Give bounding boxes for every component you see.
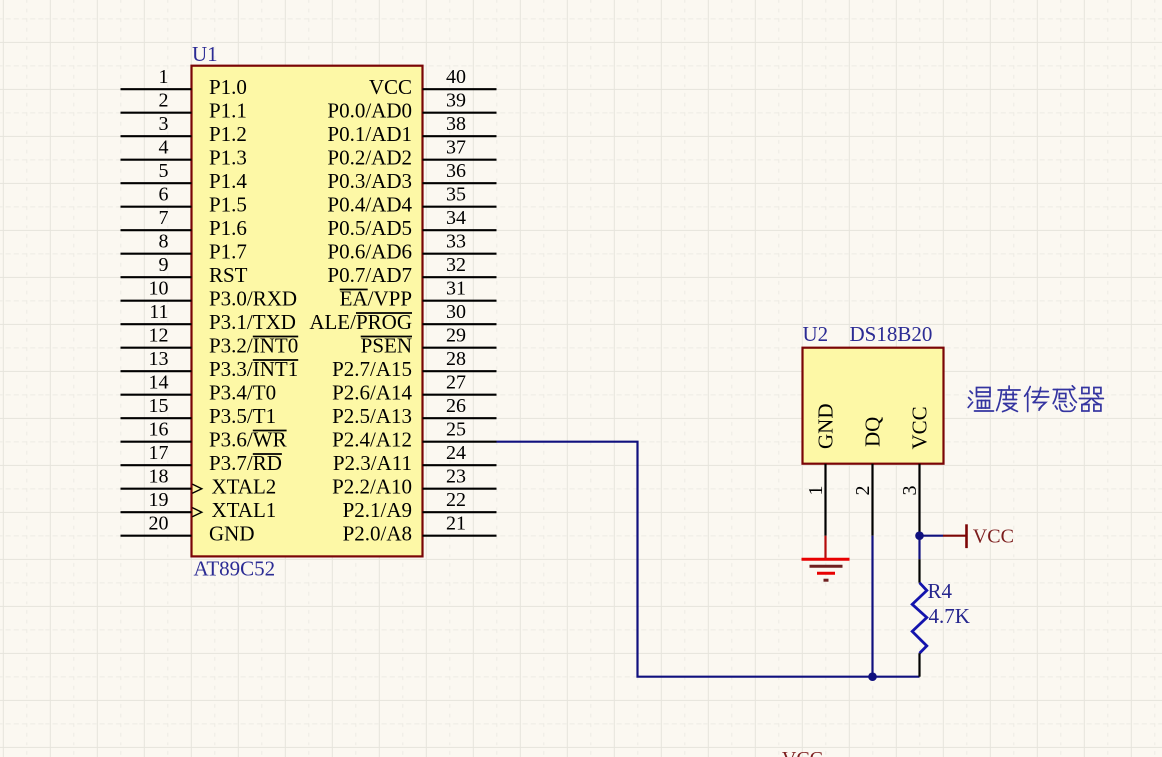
U2 pin 3 VCC	[899, 406, 931, 535]
svg-text:12: 12	[149, 325, 169, 347]
U1 pin 31 EA/VPP	[340, 278, 497, 311]
svg-text:4.7K: 4.7K	[929, 604, 970, 628]
svg-text:P2.7/A15: P2.7/A15	[332, 357, 412, 381]
svg-text:P0.2/AD2: P0.2/AD2	[327, 146, 412, 170]
svg-text:14: 14	[149, 372, 169, 394]
svg-text:XTAL2: XTAL2	[212, 475, 277, 499]
U1 pin 33 P0.6/AD6	[327, 231, 496, 264]
svg-text:28: 28	[446, 348, 466, 370]
svg-text:P1.1: P1.1	[209, 99, 247, 123]
U1 pin 13 P3.3/INT1	[121, 348, 299, 381]
svg-text:P0.6/AD6: P0.6/AD6	[327, 240, 412, 264]
U1 pin 17 P3.7/RD	[121, 442, 282, 475]
svg-text:16: 16	[149, 419, 169, 441]
svg-text:19: 19	[149, 489, 169, 511]
U1 pin 11 P3.1/TXD	[121, 301, 296, 334]
svg-text:4: 4	[159, 137, 169, 159]
svg-text:40: 40	[446, 66, 466, 88]
svg-text:7: 7	[159, 207, 169, 229]
R4 value label 4.7K	[929, 604, 970, 628]
svg-text:P0.7/AD7: P0.7/AD7	[327, 263, 412, 287]
svg-text:P3.1/TXD: P3.1/TXD	[209, 310, 296, 334]
U1 pin 3 P1.2	[121, 113, 247, 146]
svg-text:P2.6/A14: P2.6/A14	[332, 381, 412, 405]
svg-text:23: 23	[446, 466, 466, 488]
svg-text:33: 33	[446, 231, 466, 253]
U1 designator label	[192, 42, 218, 66]
U1 pin 40 VCC	[369, 66, 497, 99]
U2 pin 1 GND	[805, 404, 837, 536]
svg-text:P3.4/T0: P3.4/T0	[209, 381, 276, 405]
svg-text:25: 25	[446, 419, 466, 441]
svg-text:17: 17	[149, 442, 169, 464]
svg-text:30: 30	[446, 301, 466, 323]
svg-text:P1.3: P1.3	[209, 146, 247, 170]
U2 pin 2 DQ	[852, 417, 884, 536]
U1 pin 28 P2.7/A15	[332, 348, 496, 381]
U1 pin 2 P1.1	[121, 90, 247, 123]
U1 pin 29 PSEN	[361, 325, 497, 358]
U1 pin 39 P0.0/AD0	[327, 90, 496, 123]
U1 pin 9 RST	[121, 254, 248, 287]
svg-text:15: 15	[149, 395, 169, 417]
svg-text:R4: R4	[928, 579, 953, 603]
svg-text:P2.4/A12: P2.4/A12	[332, 428, 412, 452]
svg-text:1: 1	[159, 66, 169, 88]
svg-text:VCC: VCC	[369, 75, 412, 99]
U1 pin 15 P3.5/T1	[121, 395, 277, 428]
wire VCC stub	[920, 535, 944, 537]
U1 pin 24 P2.3/A11	[333, 442, 497, 475]
U1 pin 18 XTAL2	[121, 466, 277, 499]
svg-text:2: 2	[852, 486, 874, 496]
U1 pin 25 P2.4/A12	[332, 419, 496, 452]
U1 pin 8 P1.7	[121, 231, 247, 264]
annotation text 温度传感器 (temperature sensor)	[968, 386, 1103, 412]
junction node DQ/bottom wire	[868, 672, 877, 681]
svg-text:P0.4/AD4: P0.4/AD4	[327, 193, 412, 217]
U1 value label AT89C52	[194, 557, 276, 581]
svg-text:6: 6	[159, 184, 169, 206]
svg-text:P2.5/A13: P2.5/A13	[332, 404, 412, 428]
svg-text:5: 5	[159, 160, 169, 182]
U2 value label DS18B20	[850, 322, 933, 346]
svg-text:32: 32	[446, 254, 466, 276]
svg-text:DS18B20: DS18B20	[850, 322, 933, 346]
U1 pin 12 P3.2/INT0	[121, 325, 299, 358]
svg-text:VCC: VCC	[782, 748, 823, 757]
IC U1 body (AT89C52)	[192, 66, 423, 557]
svg-text:13: 13	[149, 348, 169, 370]
svg-text:20: 20	[149, 513, 169, 535]
svg-text:2: 2	[159, 90, 169, 112]
U2 designator label	[803, 322, 829, 346]
svg-text:P2.1/A9: P2.1/A9	[343, 498, 412, 522]
svg-text:P1.2: P1.2	[209, 122, 247, 146]
svg-text:GND: GND	[209, 522, 255, 546]
svg-text:9: 9	[159, 254, 169, 276]
svg-text:26: 26	[446, 395, 466, 417]
U1 pin 7 P1.6	[121, 207, 247, 240]
svg-text:18: 18	[149, 466, 169, 488]
svg-text:P0.3/AD3: P0.3/AD3	[327, 169, 412, 193]
svg-text:P0.5/AD5: P0.5/AD5	[327, 216, 412, 240]
svg-text:RST: RST	[209, 263, 248, 287]
svg-text:21: 21	[446, 513, 466, 535]
U1 pin 35 P0.4/AD4	[327, 184, 496, 217]
svg-text:DQ: DQ	[860, 417, 884, 447]
svg-text:1: 1	[805, 486, 827, 496]
U1 pin 4 P1.3	[121, 137, 247, 170]
svg-text:VCC: VCC	[973, 525, 1014, 547]
U1 pin 23 P2.2/A10	[332, 466, 496, 499]
U1 pin 22 P2.1/A9	[343, 489, 497, 522]
U1 pin 16 P3.6/WR	[121, 419, 287, 452]
U1 pin 32 P0.7/AD7	[327, 254, 496, 287]
U1 pin 36 P0.3/AD3	[327, 160, 496, 193]
svg-text:11: 11	[149, 301, 168, 323]
svg-text:39: 39	[446, 90, 466, 112]
junction node VCC/R4	[915, 531, 924, 540]
svg-text:P2.3/A11: P2.3/A11	[333, 451, 412, 475]
IC U2 body (DS18B20)	[803, 348, 944, 464]
svg-text:P2.0/A8: P2.0/A8	[343, 522, 412, 546]
svg-text:8: 8	[159, 231, 169, 253]
U1 pin 38 P0.1/AD1	[327, 113, 496, 146]
svg-text:VCC: VCC	[907, 406, 931, 449]
ground symbol GND (power ground)	[802, 536, 850, 581]
U1 pin 1 P1.0	[121, 66, 247, 99]
U1 pin 10 P3.0/RXD	[121, 278, 298, 311]
svg-text:P1.0: P1.0	[209, 75, 247, 99]
svg-text:3: 3	[899, 486, 921, 496]
svg-text:GND: GND	[813, 404, 837, 450]
U1 pin 27 P2.6/A14	[332, 372, 496, 405]
svg-text:P3.5/T1: P3.5/T1	[209, 404, 276, 428]
svg-text:U2: U2	[803, 322, 829, 346]
U1 pin 19 XTAL1	[121, 489, 277, 522]
svg-text:38: 38	[446, 113, 466, 135]
svg-text:36: 36	[446, 160, 466, 182]
svg-text:P1.5: P1.5	[209, 193, 247, 217]
power port VCC (bottom, clipped by page edge)	[782, 748, 823, 757]
svg-text:22: 22	[446, 489, 466, 511]
wire net P2.4/A12 to DS18B20 DQ (pin25 right, down, along bottom)	[497, 442, 920, 677]
svg-text:37: 37	[446, 137, 466, 159]
U1 pin 34 P0.5/AD5	[327, 207, 496, 240]
resistor R4	[912, 536, 927, 677]
U1 pin 26 P2.5/A13	[332, 395, 496, 428]
U1 pin 6 P1.5	[121, 184, 247, 217]
svg-text:P1.6: P1.6	[209, 216, 247, 240]
svg-text:3: 3	[159, 113, 169, 135]
U1 pin 14 P3.4/T0	[121, 372, 277, 405]
svg-text:P1.4: P1.4	[209, 169, 247, 193]
svg-text:P1.7: P1.7	[209, 240, 247, 264]
svg-text:XTAL1: XTAL1	[212, 498, 277, 522]
R4 designator label	[928, 579, 953, 603]
svg-text:P0.0/AD0: P0.0/AD0	[327, 99, 412, 123]
U1 pin 5 P1.4	[121, 160, 248, 193]
svg-text:P3.0/RXD: P3.0/RXD	[209, 287, 297, 311]
U1 pin 21 P2.0/A8	[343, 513, 497, 546]
power port VCC (right of R4 junction)	[943, 524, 1014, 548]
svg-text:10: 10	[149, 278, 169, 300]
U1 pin 37 P0.2/AD2	[327, 137, 496, 170]
svg-text:31: 31	[446, 278, 466, 300]
svg-text:35: 35	[446, 184, 466, 206]
svg-text:34: 34	[446, 207, 466, 229]
svg-text:27: 27	[446, 372, 466, 394]
svg-text:AT89C52: AT89C52	[194, 557, 276, 581]
svg-text:29: 29	[446, 325, 466, 347]
svg-text:U1: U1	[192, 42, 218, 66]
wire net DQ vertical	[871, 536, 873, 677]
svg-text:P0.1/AD1: P0.1/AD1	[327, 122, 412, 146]
svg-text:24: 24	[446, 442, 466, 464]
svg-text:P2.2/A10: P2.2/A10	[332, 475, 412, 499]
U1 pin 30 ALE/PROG	[309, 301, 496, 334]
U1 pin 20 GND	[121, 513, 255, 546]
